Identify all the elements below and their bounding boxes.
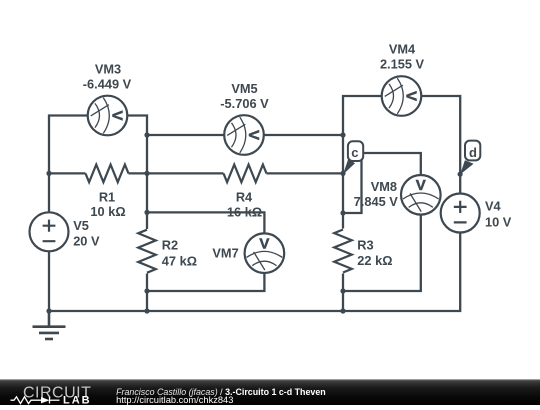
svg-text:VM5: VM5 <box>231 81 257 96</box>
resistor R2 <box>138 230 156 273</box>
voltage source V4 <box>441 194 480 233</box>
svg-text:VM3: VM3 <box>95 62 121 77</box>
svg-text:VM8: VM8 <box>371 179 397 194</box>
wire: VM8 top loop to node c rail <box>343 153 421 213</box>
svg-text:R4: R4 <box>236 189 253 204</box>
junction: ground node on bottom rail <box>46 308 51 313</box>
wire: VM5 right lead <box>264 134 343 136</box>
wire: V5 bottom lead down to bottom rail <box>48 251 50 311</box>
junction: R3 bottom / VM8 bottom <box>340 288 345 293</box>
wire: VM7 bottom branch <box>147 273 264 291</box>
svg-text:7.845 V: 7.845 V <box>354 194 399 209</box>
svg-text:22 kΩ: 22 kΩ <box>357 253 392 268</box>
junction: left rail / R1 left <box>46 171 51 176</box>
svg-text:2.155 V: 2.155 V <box>380 57 425 72</box>
wire: VM3 left lead + left rail down to V5 top <box>49 116 88 213</box>
voltmeter VM3 <box>88 96 128 136</box>
junction: VM7 top branch <box>144 210 149 215</box>
wire: VM7 top branch <box>147 212 264 233</box>
svg-text:R3: R3 <box>357 237 373 252</box>
svg-text:d: d <box>469 145 477 160</box>
voltmeter VM4 <box>382 76 422 116</box>
svg-text:LAB: LAB <box>63 394 92 405</box>
junction: VM5 left on mid rail <box>144 132 149 137</box>
resistor R3 <box>334 230 352 273</box>
wire: mid rail R2 bottom to bottom rail <box>146 274 148 312</box>
wire: R1 left lead <box>49 172 86 174</box>
svg-text:c: c <box>351 145 358 160</box>
node d flag <box>460 141 480 175</box>
resistor R1 <box>86 165 129 183</box>
svg-text:20 V: 20 V <box>73 233 100 248</box>
junction: node c / R4 right <box>340 171 345 176</box>
resistor R4 <box>224 165 267 183</box>
wire: right rail R3 bottom to bottom rail <box>342 274 344 312</box>
ground <box>33 311 66 339</box>
wire: VM4 right lead + V4 top lead <box>421 96 460 194</box>
wire: R4 right lead <box>267 172 344 174</box>
junction: mid rail on bottom rail <box>144 308 149 313</box>
wire: VM8 bottom to R3 bottom junction <box>343 214 421 291</box>
voltmeter VM8 <box>401 175 441 215</box>
svg-text:VM4: VM4 <box>389 42 416 57</box>
svg-text:16 kΩ: 16 kΩ <box>227 204 262 219</box>
svg-text:V4: V4 <box>485 199 502 214</box>
junction: VM5 right on node-c rail <box>340 132 345 137</box>
junction: node d anchor on V4 wire <box>458 172 463 177</box>
svg-text:http://circuitlab.com/chkz843: http://circuitlab.com/chkz843 <box>116 395 233 405</box>
svg-text:47 kΩ: 47 kΩ <box>162 253 197 268</box>
voltmeter VM7 <box>245 233 285 273</box>
wire: VM4 left lead + right rail down to R3 top <box>343 96 382 229</box>
svg-text:R1: R1 <box>99 189 115 204</box>
voltmeter VM5 <box>224 115 264 155</box>
voltage source V5 <box>30 212 69 251</box>
logo resistor-diode squiggle <box>11 397 60 404</box>
node c flag <box>343 141 363 174</box>
svg-text:-6.449 V: -6.449 V <box>83 76 132 91</box>
wire: R1 right lead <box>129 172 148 174</box>
wire: VM3 right lead + mid rail down to R2 top <box>127 116 147 230</box>
svg-text:R2: R2 <box>162 238 178 253</box>
svg-text:VM7: VM7 <box>212 246 238 261</box>
svg-text:-5.706 V: -5.706 V <box>220 96 269 111</box>
junction: VM8 top loop on node-c rail <box>340 210 345 215</box>
junction: R2 bottom / VM7 bottom <box>144 288 149 293</box>
wire: R4 left lead <box>147 172 224 174</box>
svg-text:V5: V5 <box>73 218 89 233</box>
junction: R1 right / R4 left <box>144 171 149 176</box>
junction: node-c rail on bottom rail <box>340 308 345 313</box>
wire: VM5 left lead <box>147 134 224 136</box>
wire: bottom rail up to V4 bottom <box>49 233 460 312</box>
svg-text:10 V: 10 V <box>485 214 512 229</box>
svg-text:10 kΩ: 10 kΩ <box>90 204 125 219</box>
